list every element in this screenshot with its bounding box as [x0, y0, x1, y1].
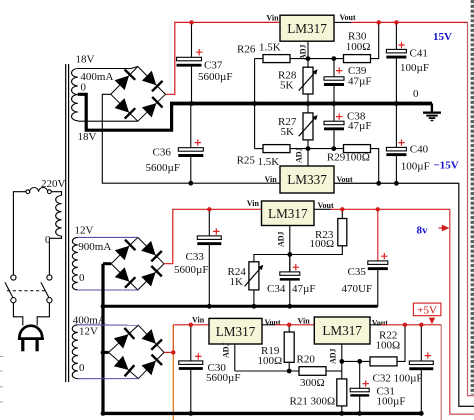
svg-text:5K: 5K — [281, 126, 295, 138]
svg-text:LM317: LM317 — [216, 324, 256, 339]
svg-text:+5V: +5V — [417, 304, 437, 316]
wire B3 DC- stub — [103, 351, 109, 354]
resistor R19 body — [284, 332, 294, 362]
transformer primary winding 220V — [56, 196, 62, 237]
resistor R27 body — [303, 113, 313, 140]
svg-text:100µF: 100µF — [401, 161, 430, 173]
wire B3 DC+ red stub — [164, 351, 173, 353]
svg-text:100Ω: 100Ω — [346, 41, 371, 53]
voltage regulator U5 LM337 — [280, 166, 334, 193]
svg-text:1K: 1K — [230, 276, 244, 288]
junction dots bus2 — [207, 304, 212, 309]
svg-text:−15V: −15V — [434, 160, 459, 172]
wire orange/red raw DC up to Vin rail — [172, 325, 174, 353]
svg-text:Vin: Vin — [298, 316, 311, 325]
wire W2 top tap blue to B2 — [78, 236, 138, 238]
svg-text:Vin: Vin — [265, 175, 278, 184]
0V bus circuit 3 — [102, 412, 422, 415]
wire switch to plug — [13, 303, 22, 326]
svg-text:Vin: Vin — [192, 315, 205, 324]
svg-text:18V: 18V — [78, 131, 97, 143]
diode B1 left-top — [115, 70, 136, 91]
wire W2 bottom tap blue to B2 — [78, 289, 138, 291]
fuse / lamp between primary terminals — [30, 188, 48, 192]
svg-text:5600µF: 5600µF — [146, 162, 180, 174]
arrow 8v output — [442, 225, 450, 232]
wire Vin rail circuit3 — [173, 324, 209, 326]
wire orange raw DC down — [172, 352, 174, 420]
wire B1 DC+ red up to +rail — [165, 22, 280, 94]
wire 15V net right frame — [468, 22, 474, 395]
svg-text:R20: R20 — [297, 354, 316, 366]
svg-text:0: 0 — [79, 272, 85, 284]
wire R30 right to Vout node — [371, 22, 379, 58]
transformer secondary W3 12V 400mA — [72, 325, 78, 379]
capacitor C35 red top lead — [377, 209, 379, 261]
capacitor C41 — [386, 22, 406, 103]
resistor R21 lead — [341, 406, 343, 414]
svg-text:R25: R25 — [237, 154, 256, 166]
wire R22 row — [342, 360, 370, 362]
svg-text:C41: C41 — [410, 48, 428, 60]
svg-text:100Ω: 100Ω — [376, 340, 401, 352]
ruler tick marks left edge — [0, 357, 3, 403]
diode B1 bottom-right — [142, 97, 163, 118]
voltage regulator U4 LM317 — [314, 317, 370, 344]
svg-text:5600µF: 5600µF — [206, 372, 240, 384]
svg-text:100Ω: 100Ω — [345, 152, 370, 164]
svg-text:100µF: 100µF — [377, 395, 406, 407]
voltage regulator U2 LM317 — [262, 201, 315, 226]
svg-text:R29: R29 — [327, 152, 346, 164]
wire B2 DC- thick to vertical bus — [103, 262, 111, 265]
pin ADJ U1 wire — [307, 41, 309, 67]
diode B1 left-bottom — [115, 98, 136, 119]
resistor R29 body — [344, 145, 371, 153]
row1 ADJ net wire — [255, 58, 263, 60]
capacitor C30 — [179, 325, 203, 414]
svg-text:300Ω: 300Ω — [311, 395, 336, 407]
capacitor C40 — [386, 104, 406, 184]
wire ADJ3 row to R20 — [235, 370, 299, 372]
wire W1 bottom tap to bridge B1 bottom — [78, 120, 138, 122]
svg-text:ADJ: ADJ — [222, 342, 231, 358]
wire R22 right up to +5V rail — [397, 325, 405, 362]
capacitor C36 — [178, 104, 203, 184]
svg-text:LM317: LM317 — [322, 323, 362, 338]
ground symbol — [423, 104, 441, 121]
bridge rectifier B1 outline — [111, 67, 166, 122]
svg-text:900mA: 900mA — [78, 241, 111, 253]
thick vertical 0V bus left (circuits 2+3) — [101, 264, 104, 414]
wire -15V net right frame — [334, 183, 474, 406]
pin ADJ U3 wire — [234, 344, 236, 371]
svg-text:LM337: LM337 — [287, 172, 327, 187]
svg-text:C36: C36 — [153, 147, 172, 159]
resistor R19 leads — [288, 325, 290, 371]
svg-text:18V: 18V — [76, 54, 95, 66]
diode B3 left-top — [114, 328, 135, 349]
resistor R25 body — [263, 145, 290, 153]
svg-text:C40: C40 — [410, 144, 429, 156]
switch DPST — [5, 275, 52, 303]
svg-text:Vout: Vout — [318, 201, 334, 210]
junction dots -15V rail — [188, 181, 193, 186]
transformer secondary W2 12V 900mA — [72, 237, 77, 290]
wire R20 to ADJ4 — [326, 370, 342, 372]
svg-text:ADJ: ADJ — [295, 147, 304, 163]
svg-text:0: 0 — [45, 234, 51, 246]
svg-text:Vout: Vout — [340, 13, 356, 22]
resistor R30 body — [344, 55, 371, 63]
svg-text:1.5K: 1.5K — [259, 41, 281, 53]
svg-text:47µF: 47µF — [292, 283, 315, 295]
capacitor C39 — [324, 59, 344, 104]
resistor R23 body — [338, 219, 347, 246]
svg-text:0: 0 — [79, 362, 85, 374]
svg-text:C34: C34 — [267, 283, 286, 295]
wire W3 top tap blue to B3 — [78, 324, 139, 326]
AC plug — [18, 326, 44, 352]
svg-text:C37: C37 — [204, 60, 223, 72]
wire +15V rail from LM317 Vout — [334, 21, 351, 23]
wire primary right to coil top — [51, 192, 61, 196]
pin ADJ U5 wire — [307, 149, 309, 166]
capacitor C38 — [324, 104, 344, 149]
diode B3 left-bottom — [114, 356, 135, 377]
resistor R20 body — [299, 367, 326, 376]
resistor R28 body — [303, 67, 313, 94]
wire +5V net down right edge — [440, 325, 442, 420]
svg-text:C35: C35 — [348, 266, 367, 278]
svg-text:C33: C33 — [186, 251, 205, 263]
junction dots row1 — [306, 56, 311, 61]
wire W3 bottom tap blue to B3 — [78, 378, 139, 380]
dashed page border right edge — [471, 0, 474, 395]
svg-text:15V: 15V — [433, 31, 452, 43]
junction dots circuit2 rails — [207, 207, 211, 211]
wire primary coil bottom to switch right — [49, 236, 61, 275]
transformer secondary W1 18V-0-18V — [72, 69, 78, 121]
transformer core — [65, 64, 67, 382]
0V bus circuit 1 — [170, 102, 432, 106]
svg-text:47µF: 47µF — [348, 75, 371, 87]
wire B1 DC- to LM337 rail — [102, 94, 280, 183]
junction dots red rail1 — [189, 20, 193, 24]
capacitor C34 — [280, 255, 300, 307]
+5V label box — [413, 303, 441, 316]
svg-text:LM317: LM317 — [287, 21, 327, 36]
diode B2 bottom-right — [141, 266, 162, 287]
diode B3 bottom-right — [142, 355, 163, 376]
wire 0 center tap thick to 0V bus — [78, 94, 172, 130]
wire B2 DC+ red up to Vin rail — [164, 209, 262, 263]
svg-text:Vout: Vout — [372, 318, 388, 327]
svg-text:8v: 8v — [417, 224, 429, 236]
svg-text:1.5K: 1.5K — [258, 156, 280, 168]
svg-text:LM317: LM317 — [268, 206, 308, 221]
row2 ADJ net wire — [255, 148, 263, 150]
svg-text:5K: 5K — [280, 79, 294, 91]
wire R26/R25 common leg to bus — [254, 59, 256, 149]
svg-text:300Ω: 300Ω — [300, 377, 325, 389]
diode B1 top-right — [142, 71, 163, 92]
svg-text:ADJ: ADJ — [329, 348, 338, 364]
svg-text:0: 0 — [81, 81, 87, 93]
diode B2 left-top — [115, 240, 136, 261]
wire Vout U2 — [314, 208, 331, 210]
svg-text:47µF: 47µF — [348, 120, 371, 132]
wire R29 right to Vout337 — [371, 149, 379, 184]
svg-text:100Ω: 100Ω — [258, 355, 283, 367]
svg-text:C32 100µF: C32 100µF — [373, 372, 423, 384]
bridge rectifier B3 outline — [109, 325, 164, 378]
capacitor C32 — [409, 325, 433, 414]
pin ADJ U2 wire — [289, 226, 291, 272]
svg-text:Vin: Vin — [247, 199, 260, 208]
svg-text:5600µF: 5600µF — [174, 264, 208, 276]
diode B2 top-right — [141, 241, 162, 262]
resistor R26 body — [263, 55, 290, 63]
svg-text:R26: R26 — [237, 43, 256, 55]
svg-text:100Ω: 100Ω — [310, 238, 335, 250]
resistor R22 body — [370, 357, 397, 366]
svg-text:5600µF: 5600µF — [198, 71, 232, 83]
capacitor C35 — [368, 253, 388, 306]
junction dots circuit3 rails — [189, 323, 193, 327]
svg-text:0: 0 — [413, 88, 419, 100]
capacitor C31 — [350, 361, 369, 413]
svg-text:220V: 220V — [41, 178, 66, 190]
pin ADJ U4 wire — [341, 344, 343, 379]
wire U3 Vout to U4 Vin — [262, 324, 275, 326]
arrow +5V down — [429, 318, 435, 325]
wire 8v net right frame — [450, 209, 474, 414]
svg-text:ADJ: ADJ — [277, 231, 286, 247]
0V bus circuit 2 — [102, 305, 378, 308]
diode B3 top-right — [142, 329, 163, 350]
wire W1 top tap to bridge B1 — [78, 67, 138, 69]
voltage regulator U3 LM317 — [209, 318, 262, 344]
svg-text:Vin: Vin — [266, 14, 279, 23]
resistor R23 leads — [290, 209, 343, 254]
svg-text:Vout: Vout — [337, 175, 353, 184]
resistor R24 body — [249, 262, 259, 290]
potentiometer R24 leads — [254, 255, 290, 307]
wire primary left down to switch — [13, 192, 26, 275]
junction dots bus1 — [189, 101, 194, 106]
resistor R21 body — [337, 379, 347, 406]
svg-text:470UF: 470UF — [342, 283, 373, 295]
junction dots row2 — [306, 146, 311, 151]
svg-text:R21: R21 — [290, 395, 308, 407]
svg-text:12V: 12V — [79, 325, 98, 337]
svg-text:Vout: Vout — [265, 318, 281, 327]
capacitor C33 — [197, 209, 221, 306]
capacitor C37 — [177, 22, 203, 103]
diode B2 left-bottom — [115, 267, 136, 288]
bridge rectifier B2 outline — [111, 237, 164, 290]
svg-text:100µF: 100µF — [400, 62, 429, 74]
svg-text:12V: 12V — [75, 224, 94, 236]
junction dots bus3 — [101, 411, 106, 416]
wire +5V rail — [370, 324, 381, 326]
voltage regulator U1 LM317 — [280, 15, 334, 41]
